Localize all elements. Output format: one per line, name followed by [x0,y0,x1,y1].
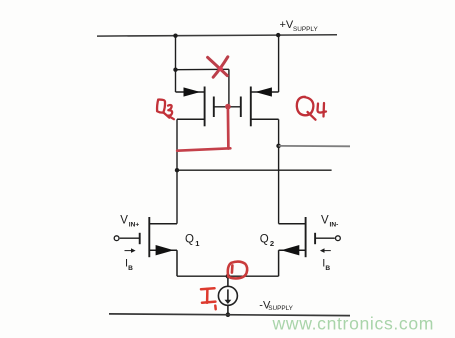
node: junction gate-feed tap [173,68,177,72]
annotation: red dot on gate node [225,104,231,110]
wire: output to next stage (gray) [279,145,350,147]
node: junction top rail / Q4 source branch [276,33,280,37]
label IB left with arrow [125,248,136,272]
label IB right with arrow [320,248,331,272]
svg-text:V: V [321,215,329,227]
wire: tail (sources of Q1 and Q2) [177,275,279,277]
annotation: handwritten I1 (red) [201,288,216,309]
wire: Q3 drain to Q1 drain vertical [176,119,178,223]
wire: lower output horizontal [177,169,332,171]
node: junction bottom rail [226,312,231,317]
wire: -V supply bottom rail [109,314,350,316]
node: junction top rail / Q3 source branch [173,34,177,38]
svg-text:IN-: IN- [330,221,339,228]
wire: Q3 source vertical from top rail [175,36,177,92]
annotation: red X cross-out over gate feed [208,57,228,77]
wire: gate feed horizontal (crossed out) [176,68,229,70]
wire: +V supply top rail [97,35,337,36]
transistor Q2 (NMOS, right of diff pair) [279,217,341,276]
annotation: red re-wire of gate to Q3 drain [177,107,230,151]
wire: Q4 source vertical from top rail [278,35,280,92]
transistor Q4 (PMOS, right of mirror) [241,87,279,127]
svg-text:+V: +V [280,19,294,31]
node: junction lower output tap [175,168,179,172]
svg-text:SUPPLY: SUPPLY [268,305,293,312]
annotation: handwritten Q4 [297,97,326,120]
svg-text:V: V [120,215,128,227]
current source I1 [218,276,237,315]
annotation: red circle around tail node [228,262,247,279]
svg-text:SUPPLY: SUPPLY [293,26,318,33]
wire: Q4 drain to Q2 drain vertical [278,119,280,223]
wire: Q3 gate to Q4 gate [214,106,241,108]
annotation: handwritten Q3 [157,100,174,120]
wire: gate net vertical down to Q3/Q4 gates [228,69,230,107]
transistor Q1 (NMOS, left of diff pair) [114,217,177,276]
svg-text:IN+: IN+ [129,221,140,228]
svg-text:B: B [325,265,330,272]
node: output node junction [276,144,281,149]
svg-text:2: 2 [270,239,274,248]
node: tail junction [226,274,231,279]
svg-text:B: B [128,265,133,272]
svg-text:Q: Q [185,233,194,245]
transistor Q3 (PMOS, left of mirror) [176,87,214,127]
node: gate net junction [227,105,231,109]
svg-text:www.cntronics.com: www.cntronics.com [272,314,435,334]
svg-text:Q: Q [260,233,269,245]
